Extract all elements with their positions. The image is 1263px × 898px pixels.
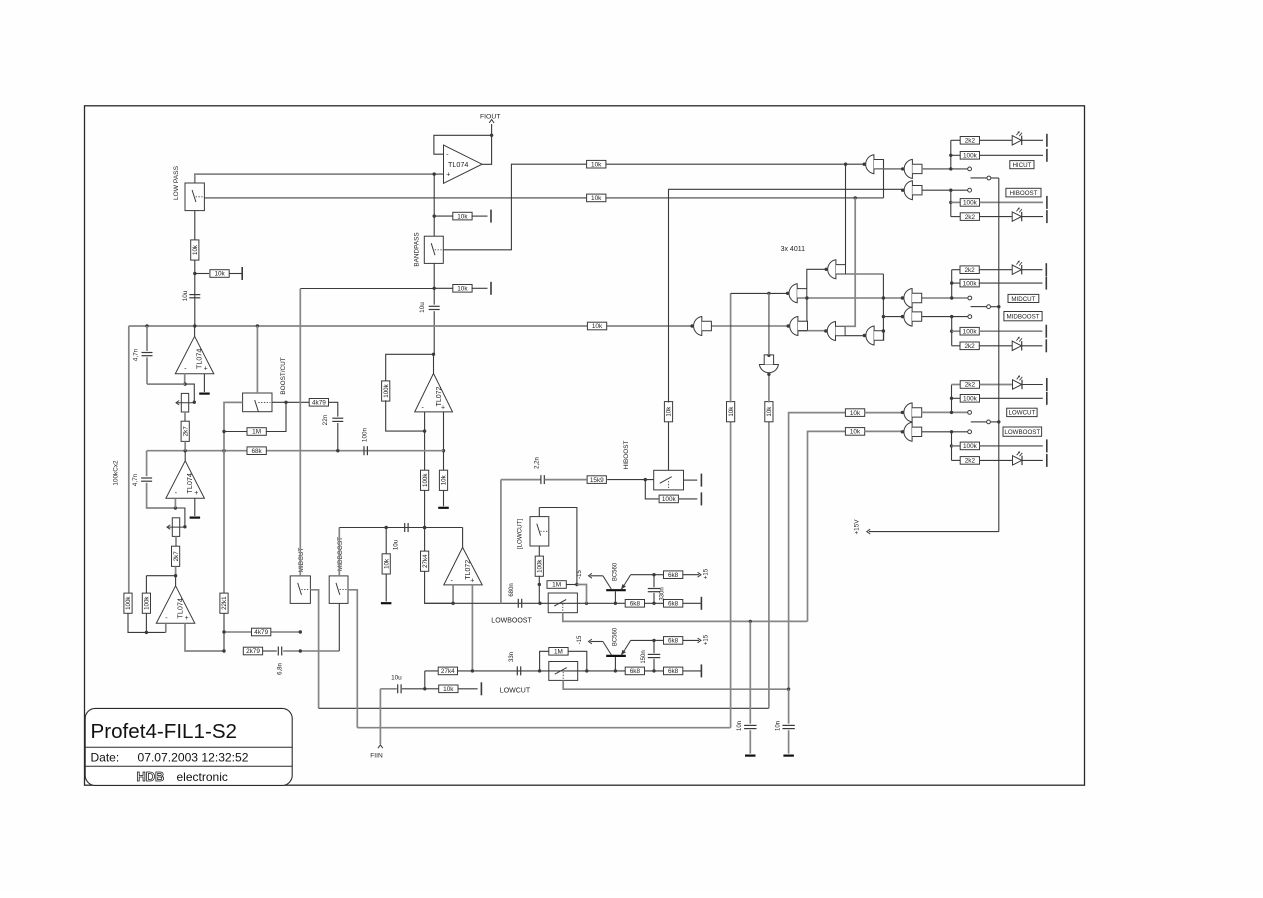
svg-text:10u: 10u: [391, 675, 402, 682]
wire to 100k mid2: [952, 330, 961, 332]
wire 100k2 to tick mid: [979, 330, 1043, 332]
node U5 chain: [423, 526, 426, 529]
gate 4011 G6 lowcut: [901, 403, 922, 422]
label box HICUT: [1010, 161, 1034, 169]
wire 2k79 to 6n8: [263, 650, 277, 652]
node 100k junction: [145, 631, 148, 634]
node lowcut drive rail: [787, 688, 790, 691]
wire 4011 rail x=883: [882, 274, 884, 340]
terminal tick input: [480, 682, 482, 695]
resistor 100k U5 input: [421, 470, 429, 490]
wire low rail upper: [951, 385, 953, 413]
wire U3 - input down: [174, 498, 176, 508]
wire led2 to tick: [1022, 216, 1043, 218]
resistor 10k shunt row1: [453, 212, 472, 220]
node + input 68k line: [442, 449, 445, 452]
wire 1M to right node: [566, 584, 577, 586]
node 1M2 left: [538, 669, 541, 672]
resistor 100k fb2: [142, 593, 150, 613]
svg-text:100kCx2: 100kCx2: [113, 460, 120, 486]
wire 2,2n to 15k9: [545, 479, 587, 481]
switch BANDPASS: [424, 236, 443, 263]
resistor 2k2 midboost led: [960, 342, 979, 350]
svg-text:10k: 10k: [457, 213, 468, 220]
wire to 2k2 mid2: [952, 345, 961, 347]
resistor 2k2 hicut led: [960, 137, 979, 145]
svg-text:15k9: 15k9: [590, 477, 604, 484]
wire G1 stub rail: [883, 160, 885, 198]
resistor 2k2 lowboost led: [960, 457, 979, 465]
wire 10k to node A: [194, 260, 196, 326]
wire - loop to 4n7: [147, 383, 185, 385]
svg-text:BANDPASS: BANDPASS: [414, 232, 421, 266]
svg-text:LOWCUT: LOWCUT: [1008, 410, 1035, 417]
wire Mg2 top stub to GT: [807, 269, 826, 288]
svg-text:10k: 10k: [766, 406, 773, 417]
wire 10k row2 to tick: [472, 287, 488, 289]
resistor 2k7 stage2: [181, 421, 189, 441]
wire mid rail lower: [951, 317, 953, 346]
node 330n top: [652, 573, 655, 576]
lever LOW switch: [971, 421, 987, 423]
op-amp U6 TL072: [444, 547, 482, 585]
wire led to tick mid: [1022, 269, 1043, 271]
svg-text:2k7: 2k7: [182, 426, 189, 437]
switch LOW PASS: [185, 183, 204, 211]
svg-text:2k2: 2k2: [965, 458, 976, 465]
wire LOW common to rail: [991, 421, 999, 423]
capacitor 6,8n: [278, 647, 281, 656]
wire U5 feedback top: [386, 354, 434, 382]
wire 10n-2 lower: [788, 730, 790, 753]
wire rail to bandpass box: [433, 216, 435, 236]
wire 150n lower: [653, 659, 655, 671]
svg-text:10u: 10u: [182, 290, 189, 301]
wire to 10k row2: [434, 287, 453, 289]
wire 10k to gate L1: [865, 412, 903, 414]
svg-text:10k: 10k: [850, 410, 861, 417]
svg-text:+: +: [204, 365, 208, 372]
wire node to 10k: [425, 688, 439, 690]
wire led to tick: [1022, 139, 1043, 141]
gate 4011 G7 lowboost: [901, 422, 922, 441]
resistor 10k tap: [210, 270, 229, 278]
wire 2k7 to stage4 node: [175, 566, 177, 575]
resistor 100k hiboost: [960, 199, 979, 207]
ground bar 10n b: [783, 754, 794, 756]
wire U6 + down to 27k4 row: [471, 585, 473, 671]
label box LOWBOOST: [1003, 427, 1042, 436]
svg-text:2k2: 2k2: [965, 138, 976, 145]
svg-text:2k2: 2k2: [965, 382, 976, 389]
wire MID common to rail: [991, 306, 999, 308]
wire midcut common down: [310, 590, 318, 709]
wire 22k1 bottom: [223, 613, 225, 651]
wire to 10k row1: [434, 215, 453, 217]
wire Q1 base down: [614, 591, 616, 603]
svg-text:10n: 10n: [775, 721, 781, 731]
terminal tick low row3: [1046, 439, 1048, 452]
capacitor 22n: [332, 418, 343, 421]
capacitor 10u stage input: [189, 295, 200, 298]
switch MIDCUT: [290, 576, 310, 604]
wire U1 feedback to - input: [434, 135, 492, 154]
svg-text:33n: 33n: [509, 652, 515, 662]
wire bandpass out up to 10k: [443, 164, 586, 250]
wire midboost rail up: [730, 421, 732, 728]
svg-text:22n: 22n: [322, 414, 329, 425]
wire 100k to tick mid: [979, 282, 1043, 284]
resistor 1M boost: [247, 428, 266, 436]
wire 10u to node: [402, 688, 425, 690]
svg-text:100k: 100k: [963, 328, 978, 335]
svg-text:100k: 100k: [144, 596, 151, 610]
resistor 10k lowcut rail: [845, 409, 864, 417]
resistor 10k midcut rail: [765, 402, 773, 422]
wire to 100k mid1: [952, 282, 961, 284]
svg-text:1M: 1M: [252, 429, 261, 436]
wire 10k to tick: [458, 688, 478, 690]
transistor Q2 BC560: [603, 640, 631, 656]
resistor 10k U5 + to gnd: [439, 470, 447, 490]
node boostcut feed: [256, 324, 259, 327]
wire 2k2-2 to led: [980, 216, 1012, 218]
capacitor 2,2n: [541, 475, 544, 484]
LED hiboost: [1012, 208, 1022, 221]
wire to 2k2 mid1: [952, 269, 961, 271]
wire midboost common down: [348, 590, 357, 728]
node midcut rail 4k79: [299, 630, 302, 633]
node bandpass/10u: [433, 287, 436, 290]
svg-text:100k: 100k: [963, 153, 978, 160]
arrow +15 Q1: [698, 572, 701, 577]
contact circle LOWCUT: [968, 411, 972, 415]
resistor 15k9: [587, 476, 606, 484]
capacitor 680n: [518, 599, 521, 608]
svg-text:1M: 1M: [552, 582, 561, 589]
node U1 out/FIOUT: [490, 134, 493, 137]
wire lowcut relay drive y=689: [563, 680, 788, 689]
resistor 2k7 stage3: [172, 546, 180, 566]
ground bar U5 +: [438, 507, 449, 509]
wire 100k to tick: [679, 498, 697, 500]
wire U2 out to node: [194, 326, 196, 336]
wire U3 + to gnd: [194, 498, 196, 516]
node +15 rail low: [997, 420, 1000, 423]
svg-text:BC560: BC560: [613, 562, 619, 581]
arrow FIOUT terminal: [489, 120, 494, 123]
wire led to tick low: [1022, 384, 1043, 386]
node 100k chain lowcut relay: [538, 602, 541, 605]
svg-text:-15: -15: [577, 635, 583, 644]
wire to 100k low2: [952, 445, 961, 447]
wire - loop to wiper: [185, 384, 194, 402]
wire 68k node line: [147, 450, 444, 452]
svg-text:4,7n: 4,7n: [133, 348, 140, 361]
terminal tick low row2: [1046, 392, 1048, 405]
wire 10k tap to tick: [229, 273, 242, 275]
capacitor 10n a: [744, 725, 756, 728]
ground bar mid: [381, 602, 392, 604]
contact circle MID common: [987, 305, 991, 309]
wire 10k to gnd bar: [385, 574, 387, 602]
wire led2 to tick low: [1022, 459, 1043, 461]
wire to 100k-2: [145, 576, 147, 594]
node U4 out: [174, 574, 177, 577]
contact circle LOW common: [987, 420, 991, 424]
gate 4011 Mg2: [786, 284, 807, 303]
node 1M left: [538, 583, 541, 586]
terminal tick lowboost row: [700, 597, 702, 610]
svg-text:+: +: [185, 615, 189, 622]
svg-text:10k: 10k: [592, 323, 603, 330]
svg-text:150n: 150n: [641, 650, 647, 663]
wire Mg4 out to Mg5: [845, 335, 864, 337]
title block: [85, 708, 292, 785]
wire loop to wiper stage3: [175, 508, 185, 527]
svg-text:TL074: TL074: [194, 349, 203, 369]
wire to 100k hi2: [951, 201, 961, 203]
svg-text:100k: 100k: [963, 396, 978, 403]
node Q2 base junction: [614, 669, 617, 672]
resistor 100k lowboost: [960, 442, 979, 450]
resistor 10k midboost rail: [727, 402, 735, 422]
terminal tick hi row1: [1046, 134, 1048, 147]
wire 1M elbow to line: [577, 585, 587, 604]
wire 10n-1 upper: [749, 621, 751, 723]
wire lowcut line y=671: [425, 670, 702, 672]
wire 1M to switch right: [266, 402, 286, 431]
wire to 1M: [224, 431, 247, 433]
wire G2 out to contact: [922, 168, 968, 170]
wire hiboost sw to tick: [684, 479, 698, 481]
wire 100kCx2 left rail: [128, 326, 130, 593]
resistor 4k79 mid: [252, 628, 271, 636]
svg-text:MIDBOOST: MIDBOOST: [1006, 313, 1039, 320]
svg-text:10k: 10k: [850, 429, 861, 436]
svg-text:LOW PASS: LOW PASS: [173, 165, 180, 200]
wire U4 out to node: [175, 576, 177, 586]
wire Q2 collector to -15: [590, 641, 603, 643]
wire 2k2-2 to led low: [980, 459, 1012, 461]
node 150n bottom: [652, 669, 655, 672]
wire Q1 collector to -15: [590, 575, 603, 577]
terminal tick hi row3: [1046, 196, 1048, 209]
wire lowpass switch output (long gray): [204, 197, 883, 199]
capacitor 100n series: [364, 446, 367, 455]
wire 100k2 to tick low: [980, 445, 1043, 447]
terminal tick tap: [241, 267, 243, 280]
svg-text:100n: 100n: [362, 427, 369, 442]
wire inverter out up: [768, 293, 770, 355]
node 330n: [652, 602, 655, 605]
wire 4n7 bottom: [146, 357, 148, 384]
lever HI switch: [971, 177, 987, 179]
wire +15 rail horizontal: [869, 531, 999, 533]
svg-text:6k8: 6k8: [630, 601, 641, 608]
resistor 68k: [247, 447, 266, 455]
switch HIBOOST: [654, 470, 684, 490]
svg-text:Profet4-FIL1-S2: Profet4-FIL1-S2: [91, 720, 238, 743]
terminal tick hi row2: [1046, 149, 1048, 162]
wire to 100k hi1: [951, 154, 961, 156]
node 100k row low: [950, 397, 953, 400]
contact circle LOWBOOST: [968, 430, 972, 434]
contact circle MIDCUT: [968, 296, 972, 300]
wire 1M2 right elbow: [568, 651, 587, 671]
resistor 10k shunt row2: [453, 285, 472, 293]
wire Q2 emitter row: [631, 639, 654, 641]
svg-text:FIIN: FIIN: [370, 753, 383, 760]
wire U6 out up: [462, 528, 464, 548]
arrow -15 Q2: [589, 639, 592, 644]
wire rail to midboost pair: [883, 316, 902, 318]
resistor 100k hicut: [960, 152, 979, 160]
capacitor 150n: [648, 654, 660, 657]
svg-text:10k: 10k: [591, 195, 602, 202]
svg-text:2k79: 2k79: [246, 648, 260, 655]
wire 15k9 branch down: [500, 480, 502, 604]
wire G6 out to contact: [922, 411, 968, 413]
svg-text:10n: 10n: [737, 721, 743, 731]
node wiper stage3: [183, 525, 186, 528]
wire to 4k79-2: [224, 631, 252, 633]
wire 4k79 to 22n: [329, 402, 338, 416]
resistor 2k2 lowcut led: [960, 381, 979, 389]
wire midcut long line y=708: [319, 707, 769, 709]
arrow FIIN terminal: [378, 745, 383, 748]
wire 4n7 top: [146, 326, 148, 351]
resistor 100k midcut: [960, 279, 979, 287]
wire bandpass to node: [433, 263, 435, 288]
wire 10n-2 upper: [788, 689, 790, 724]
wire 2k2-2 to led mid: [979, 345, 1012, 347]
svg-text:+15: +15: [704, 634, 710, 645]
node 100k row hi2: [949, 201, 952, 204]
wire Mg2 out to Mg3 stub: [798, 298, 807, 321]
wire U4 + to 2k79 row: [185, 623, 224, 651]
wire midboost top pin: [338, 528, 340, 576]
terminal tick row1: [490, 210, 492, 223]
switch [LOWCUT] relay: [530, 517, 549, 546]
switch LOWBOOST: [548, 593, 577, 613]
label box HIBOOST: [1006, 188, 1041, 197]
svg-text:+: +: [446, 172, 450, 179]
terminal tick mid row3: [1045, 325, 1047, 338]
op-amp U4 TL074 integrator 3: [156, 586, 195, 624]
wire 22k1 rail: [223, 451, 225, 594]
node 22n branch: [336, 449, 339, 452]
wire to 2k2 hi1: [951, 139, 961, 141]
wire midcut rail to bandpass node: [300, 288, 434, 290]
svg-text:+: +: [194, 490, 198, 497]
wire FIOUT stem: [491, 124, 493, 135]
capacitor 10n b: [782, 725, 794, 728]
node 10k tick row 1: [433, 214, 436, 217]
node 100k row mid: [950, 281, 953, 284]
node rail midcut feed: [882, 296, 885, 299]
svg-text:MIDBOOST: MIDBOOST: [337, 537, 344, 571]
wire G5 out to contact: [922, 316, 968, 318]
wire 10n-1 lower: [749, 730, 751, 753]
wire rail to inverter apex: [768, 374, 770, 402]
svg-text:6,8n: 6,8n: [278, 663, 284, 675]
wire HI common to +15 rail: [991, 177, 999, 179]
gate 4011 inverter ND1 (down): [759, 354, 778, 376]
node switch right/1M: [284, 401, 287, 404]
wire hiboost rail to gate G3: [669, 189, 903, 402]
wire 4n7-2 to - loop: [147, 483, 176, 508]
wire pot to 2k7: [184, 412, 186, 421]
svg-text:4k79: 4k79: [254, 629, 268, 636]
resistor 10k to gnd mid: [382, 554, 390, 574]
switch BOOST/CUT: [243, 393, 272, 412]
svg-text:10u: 10u: [393, 539, 400, 550]
wire to 6k8 up2: [654, 639, 663, 641]
wire 15k9 to hiboost sw: [607, 479, 654, 481]
gate 4011 G4 midcut: [901, 289, 922, 308]
wire 100k to tick: [980, 154, 1043, 156]
wire 2k2 to led mid: [979, 269, 1012, 271]
wire Mg4 top stub to lowpass line: [845, 198, 855, 326]
node 1M right: [575, 583, 578, 586]
wire 6k8 to +15 arrow: [683, 574, 699, 576]
svg-text:100k: 100k: [963, 280, 978, 287]
wire relay top pin: [538, 508, 540, 517]
wire to 2k2 low2: [952, 459, 961, 461]
wire FIIN to 10u: [380, 688, 396, 690]
resistor 10k hiboost rail: [664, 402, 672, 422]
svg-text:+15V: +15V: [854, 519, 861, 535]
resistor 2k79: [243, 647, 262, 655]
wire 10k to gate L2: [865, 430, 903, 432]
label box LOWCUT: [1007, 408, 1037, 417]
wire relay to 100k: [538, 546, 540, 557]
svg-text:100k: 100k: [383, 383, 390, 397]
node rail Mg5: [882, 329, 885, 332]
wire Mg2 out to midcut pair: [807, 297, 903, 299]
svg-text:6k8: 6k8: [668, 668, 679, 675]
svg-text:6k8: 6k8: [668, 638, 679, 645]
wire boostcut right to 4k79: [272, 401, 309, 403]
svg-text:HIBOOST: HIBOOST: [623, 441, 630, 470]
lever MID switch: [971, 306, 987, 308]
wire 1M2 left elbow: [540, 651, 549, 671]
wire mid rail upper: [951, 270, 953, 298]
gate 4011 GT: [825, 260, 846, 279]
label box MIDBOOST: [1004, 312, 1042, 321]
terminal tick lowcut row: [700, 664, 702, 677]
gate 4011 G2 hicut: [901, 159, 922, 178]
wire 4k79 to midcut rail: [271, 631, 301, 633]
arrow -15 Q1: [589, 573, 592, 578]
wire midboost long line y=728: [357, 727, 730, 729]
resistor 10k lowpass series: [191, 240, 199, 260]
wire lowboost relay drive y=621: [563, 613, 808, 622]
resistor 1M lowcut: [549, 648, 568, 656]
wire FIIN drop: [379, 689, 381, 744]
svg-text:+: +: [470, 577, 474, 584]
gate 4011 Mg5: [863, 326, 884, 345]
svg-text:HDB: HDB: [137, 769, 165, 784]
wire lowpass sw to 10k: [194, 211, 196, 241]
wire 330n upper: [653, 575, 655, 588]
wire hiboost top pin: [668, 421, 670, 470]
svg-text:07.07.2003 12:32:52: 07.07.2003 12:32:52: [138, 750, 249, 764]
svg-text:10k: 10k: [666, 406, 673, 417]
node stage3 output: [184, 449, 187, 452]
op-amp U2 TL074 integrator 1: [175, 336, 214, 374]
